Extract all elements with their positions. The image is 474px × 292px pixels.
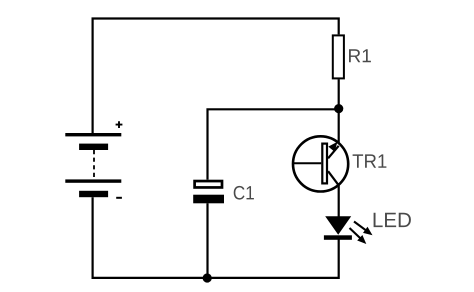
LED diode (324, 216, 373, 244)
wire C1 bottom to bottom rail (206, 203, 208, 278)
transistor base bar (322, 144, 327, 184)
battery B1 (65, 121, 122, 198)
node junction C1 bottom rail (203, 273, 212, 282)
transistor collector lead with arrow (328, 146, 339, 159)
transistor base line (292, 162, 321, 164)
capacitor C1 bottom plate (193, 195, 224, 204)
wire node to transistor collector (338, 109, 340, 146)
battery cell1 long plate (65, 133, 121, 136)
LED cathode bar (324, 235, 352, 240)
transistor body circle (293, 136, 348, 191)
resistor R1 (333, 35, 344, 78)
battery plus sign (116, 121, 123, 128)
node junction below R1 (334, 104, 343, 113)
battery cell1 thick plate (79, 144, 108, 150)
wire R1 bottom to node (338, 79, 340, 109)
capacitor C1 top plate (195, 181, 222, 187)
battery cell2 thick plate (79, 191, 108, 197)
wire battery positive to top rail to resistor R1 top (93, 19, 339, 135)
LED light arrow 2 (350, 228, 362, 239)
battery cell2 long plate (65, 179, 121, 182)
label C1 (234, 186, 254, 200)
LED anode triangle (325, 216, 351, 235)
label R1 (349, 49, 371, 62)
label TR1 (353, 154, 387, 167)
battery inter-cell dashed link (93, 150, 95, 179)
LED light arrow 1 (354, 222, 367, 232)
transistor emitter lead (328, 171, 339, 185)
wire node to capacitor C1 top (208, 109, 339, 179)
transistor TR1 (292, 136, 348, 191)
battery minus sign (116, 197, 122, 199)
wire battery negative to bottom rail to LED cathode (93, 197, 339, 278)
label LED (374, 213, 411, 227)
wire transistor emitter to LED anode (338, 185, 340, 217)
